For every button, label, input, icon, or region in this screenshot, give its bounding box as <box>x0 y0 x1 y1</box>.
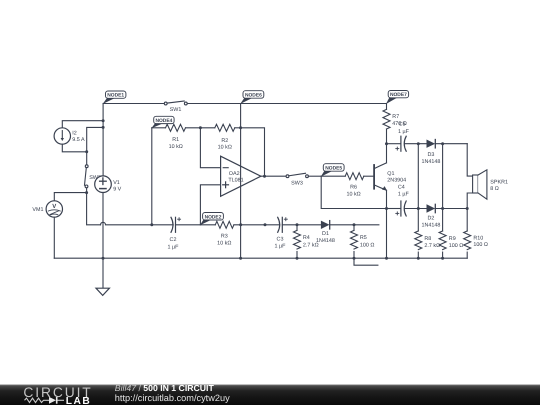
svg-text:9.5 A: 9.5 A <box>72 137 85 143</box>
wire emitter row to C4 <box>387 208 401 210</box>
svg-text:D2: D2 <box>427 216 434 222</box>
svg-text:R1: R1 <box>172 137 179 143</box>
wire NODE5 leg down to emitter row <box>321 176 386 208</box>
svg-text:R2: R2 <box>221 138 228 144</box>
junction R1/R2/minus-leg <box>199 126 202 129</box>
resistor R5 <box>351 225 358 258</box>
svg-text:V1: V1 <box>113 180 120 186</box>
junction I2/SW2 <box>85 150 88 153</box>
resistor R9 <box>439 231 446 258</box>
svg-text:100 Ω: 100 Ω <box>360 242 375 248</box>
svg-text:NODE4: NODE4 <box>155 118 172 124</box>
svg-text:R10: R10 <box>473 235 483 241</box>
wire C2 to NODE2 <box>176 224 201 226</box>
capacitor C3 <box>278 217 288 232</box>
switch SW1 <box>164 101 240 105</box>
wire speaker feed down <box>467 144 472 176</box>
wire feedback to output <box>241 128 265 176</box>
svg-text:NODE2: NODE2 <box>205 214 222 220</box>
diode D3 <box>427 140 436 148</box>
wire ground rail <box>54 257 467 259</box>
junction V1/ground rail <box>102 257 105 260</box>
wire VM1 to ground rail <box>53 217 55 258</box>
svg-text:VM1: VM1 <box>32 207 43 213</box>
voltage source V1 <box>95 176 112 193</box>
svg-text:R4: R4 <box>303 235 310 241</box>
junction R5 top <box>353 223 356 226</box>
svg-text:LAB: LAB <box>66 396 91 405</box>
wire R7 to collector junction <box>386 129 388 144</box>
diode D1 <box>321 221 330 229</box>
node NODE7 <box>386 91 409 105</box>
svg-text:SW1: SW1 <box>170 107 182 113</box>
junction R2/NODE6 <box>239 126 242 129</box>
svg-text:1 µF: 1 µF <box>168 244 180 250</box>
resistor R10 <box>464 231 471 258</box>
logo diode <box>49 397 56 404</box>
node NODE6 <box>240 91 264 104</box>
svg-text:1 µF: 1 µF <box>275 243 287 249</box>
wire D1 to open end <box>330 224 379 226</box>
svg-text:1N4148: 1N4148 <box>421 222 440 228</box>
wire R10 leg vertical <box>466 209 468 232</box>
junction R7/collector/C5 <box>385 142 388 145</box>
capacitor C4 <box>396 201 406 216</box>
junction opamp V- / signal rail <box>239 223 242 226</box>
junction C5/D3/R8 leg <box>417 142 420 145</box>
wire ground stem <box>102 258 104 288</box>
node NODE4 <box>151 116 174 128</box>
junction D3/R9 leg <box>441 142 444 145</box>
switch SW3 <box>286 173 321 177</box>
svg-text:Bill47 / 500 IN 1 CIRCUIT: Bill47 / 500 IN 1 CIRCUIT <box>115 383 215 393</box>
junction output/feedback <box>263 175 266 178</box>
wire non-inverting input leg <box>200 185 220 225</box>
wire signal rail to C2 <box>152 224 173 226</box>
junction emitter/row <box>385 207 388 210</box>
wire R6 to Q1 base <box>364 175 374 177</box>
diode D2 <box>427 204 436 212</box>
svg-text:1 µF: 1 µF <box>398 129 410 135</box>
svg-text:NODE7: NODE7 <box>390 92 407 98</box>
op-amp OA2 <box>221 156 261 196</box>
svg-text:10 kΩ: 10 kΩ <box>218 144 232 150</box>
svg-text:I2: I2 <box>72 130 77 136</box>
node NODE2 <box>200 213 224 226</box>
wire VM1 branch <box>54 193 86 201</box>
capacitor C5 <box>396 136 406 151</box>
wire D2 to speaker leg <box>435 208 467 210</box>
wire NODE7 stem <box>386 104 388 110</box>
node NODE1 <box>103 91 126 104</box>
wire NODE4 leg <box>151 128 153 225</box>
resistor R6 <box>345 173 364 180</box>
wire output to SW3 <box>261 175 286 177</box>
wire stub below R5 <box>354 258 378 265</box>
svg-text:C3: C3 <box>277 236 284 242</box>
wire V1 bottom through rail hop to ground rail <box>102 193 104 259</box>
svg-text:NODE5: NODE5 <box>325 166 342 172</box>
svg-text:2.7 kΩ: 2.7 kΩ <box>424 243 440 249</box>
wire junction to C5 <box>387 143 401 145</box>
wire R9 leg vertical <box>442 144 444 231</box>
wire I2 bottom to SW2 branch <box>62 144 86 152</box>
resistor R4 <box>294 225 301 258</box>
transistor Q1 <box>374 144 387 209</box>
svg-text:10 kΩ: 10 kΩ <box>346 192 360 198</box>
svg-text:R3: R3 <box>221 233 228 239</box>
svg-text:C4: C4 <box>398 185 405 191</box>
svg-text:100 Ω: 100 Ω <box>449 243 464 249</box>
junction output leg / signal rail <box>264 223 267 226</box>
resistor R8 <box>415 231 422 258</box>
svg-text:C2: C2 <box>170 237 177 243</box>
svg-text:1 µF: 1 µF <box>398 191 410 197</box>
wire SW2 upper branch <box>87 127 103 164</box>
wire C4 to D2 <box>405 208 427 210</box>
ground <box>96 288 109 295</box>
node NODE5 <box>321 164 344 177</box>
wire SW2 to signal rail <box>87 193 101 225</box>
junction NODE4 leg / signal rail <box>150 223 153 226</box>
junction R4 bottom <box>296 257 299 260</box>
junction R4 top <box>296 223 299 226</box>
svg-text:8 Ω: 8 Ω <box>490 186 499 192</box>
svg-text:R9: R9 <box>449 236 456 242</box>
switch SW2 <box>85 165 89 193</box>
wire opamp power pin vertical <box>240 104 242 259</box>
wire I2 top branch <box>62 121 103 128</box>
voltmeter VM1 <box>46 201 62 217</box>
junction SW2/VM1 <box>85 191 88 194</box>
wire R8 leg vertical <box>417 144 419 231</box>
junction R9/ground rail <box>441 257 444 260</box>
svg-text:OA2: OA2 <box>229 171 240 177</box>
wire signal rail left segment with hop over V1 <box>101 222 152 224</box>
svg-text:D3: D3 <box>427 152 434 158</box>
current source I2 <box>54 128 70 144</box>
svg-text:R6: R6 <box>350 185 357 191</box>
svg-text:R5: R5 <box>360 235 367 241</box>
wire NODE2 to R3 <box>200 224 215 226</box>
svg-text:R8: R8 <box>424 236 431 242</box>
svg-text:1N4148: 1N4148 <box>421 159 440 165</box>
junction R8/ground rail <box>417 257 420 260</box>
wire NODE4 to R1 <box>152 127 166 129</box>
wire top rail NODE1 to SW1 <box>103 103 164 105</box>
wire R2 to NODE6 leg <box>235 127 241 129</box>
svg-text:10 kΩ: 10 kΩ <box>217 240 231 246</box>
svg-text:NODE6: NODE6 <box>245 93 262 99</box>
wire R3 to C3 <box>234 224 280 226</box>
wire emitter to ground rail <box>386 209 388 259</box>
resistor R7 <box>383 109 390 129</box>
svg-text:R7: R7 <box>392 114 399 120</box>
svg-text:V: V <box>52 203 56 210</box>
svg-text:SPKR1: SPKR1 <box>490 179 508 185</box>
svg-text:9 V: 9 V <box>113 187 121 193</box>
resistor R2 <box>215 124 235 131</box>
logo resistor zigzag <box>25 398 50 402</box>
junction D2/R9 <box>441 207 444 210</box>
junction speaker/R10 <box>466 207 469 210</box>
wire speaker bottom down <box>467 193 472 209</box>
junction C4/D2/R8 <box>417 207 420 210</box>
svg-text:100 Ω: 100 Ω <box>473 242 488 248</box>
svg-text:10 kΩ: 10 kΩ <box>169 144 183 150</box>
junction R5 bottom <box>353 257 356 260</box>
junction opamp V-/ground rail <box>239 257 242 260</box>
wire C5 to D3 <box>405 143 427 145</box>
svg-text:1N4148: 1N4148 <box>316 238 335 244</box>
wire R1 to R2 <box>186 127 215 129</box>
resistor R3 <box>215 221 234 228</box>
svg-text:C5: C5 <box>399 122 406 128</box>
wire left vertical from NODE1 down to V1 <box>102 104 104 176</box>
speaker SPKR1 <box>473 170 487 199</box>
svg-text:TL081: TL081 <box>228 178 243 184</box>
junction at node1/I2 tap <box>102 119 105 122</box>
junction at node1/SW2 tap <box>102 126 105 129</box>
resistor R1 <box>166 124 186 131</box>
svg-text:NODE1: NODE1 <box>107 93 124 99</box>
junction emitter/ground rail <box>385 257 388 260</box>
svg-text:D1: D1 <box>322 231 329 237</box>
wire C3 to D1 <box>282 224 321 226</box>
footer bar <box>0 385 540 405</box>
wire inverting input leg <box>200 128 220 168</box>
svg-text:http://circuitlab.com/cytw2uy: http://circuitlab.com/cytw2uy <box>115 393 230 403</box>
svg-text:2N3904: 2N3904 <box>387 178 406 184</box>
capacitor C2 <box>171 217 181 232</box>
wire NODE5 to R6 <box>321 175 345 177</box>
wire top rail SW1 to NODE7 <box>241 103 387 105</box>
wire D3 to speaker corner <box>435 143 467 145</box>
svg-text:SW3: SW3 <box>291 181 303 187</box>
svg-text:Q1: Q1 <box>387 171 394 177</box>
